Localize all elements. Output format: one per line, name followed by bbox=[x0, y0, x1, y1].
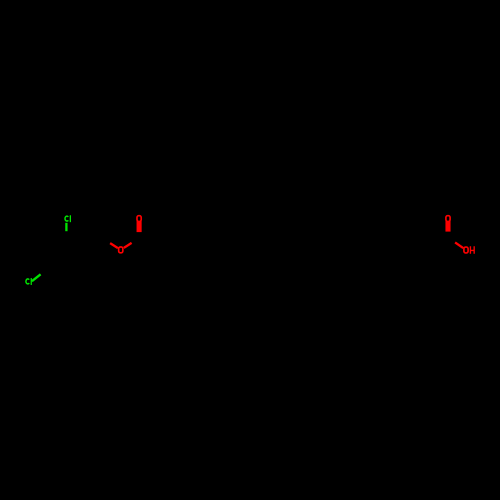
ester oxygen O1 label "O" bbox=[119, 247, 123, 253]
wire: benzyl CH2 bond bbox=[84, 241, 103, 252]
bond Cl1-ring (chlorine half, vertical) bbox=[65, 223, 67, 231]
bond O1-C(=O) (oxygen half, up-right) bbox=[124, 243, 132, 248]
wire: aliphatic zig-zag chain bbox=[140, 241, 449, 251]
carbonyl oxygen O2 (ester C=O) label "O" bbox=[137, 216, 141, 222]
hydroxyl OH (acid) label "OH" bbox=[464, 246, 474, 253]
ring inner double bonds bbox=[52, 245, 81, 276]
bond Cl2-ring (chlorine half, diagonal up-right) bbox=[32, 274, 41, 281]
bond C-OH (oxygen half, down-right) bbox=[455, 242, 463, 248]
double bond C=O2 (oxygen half, two parallel lines merged into a bar) bbox=[137, 221, 142, 232]
wire: CH2 to ester O (carbon half) bbox=[103, 241, 112, 246]
double bond C=O3 (oxygen half, two parallel lines merged into a bar) bbox=[445, 221, 450, 232]
bond CH2-O1 (oxygen half, up-left) bbox=[110, 243, 118, 248]
chlorine Cl1 (top, ring position 2) label "Cl" bbox=[65, 215, 70, 222]
carbonyl oxygen O3 (acid C=O) label "O" bbox=[446, 216, 450, 222]
benzene ring bbox=[48, 241, 84, 283]
wire: ester O to carbonyl C (carbon half) bbox=[130, 241, 139, 246]
carbon skeleton (black on black, invisible as in source) bbox=[48, 241, 448, 283]
chlorine Cl2 (lower left, ring position 4) label "Cl" bbox=[26, 278, 31, 285]
